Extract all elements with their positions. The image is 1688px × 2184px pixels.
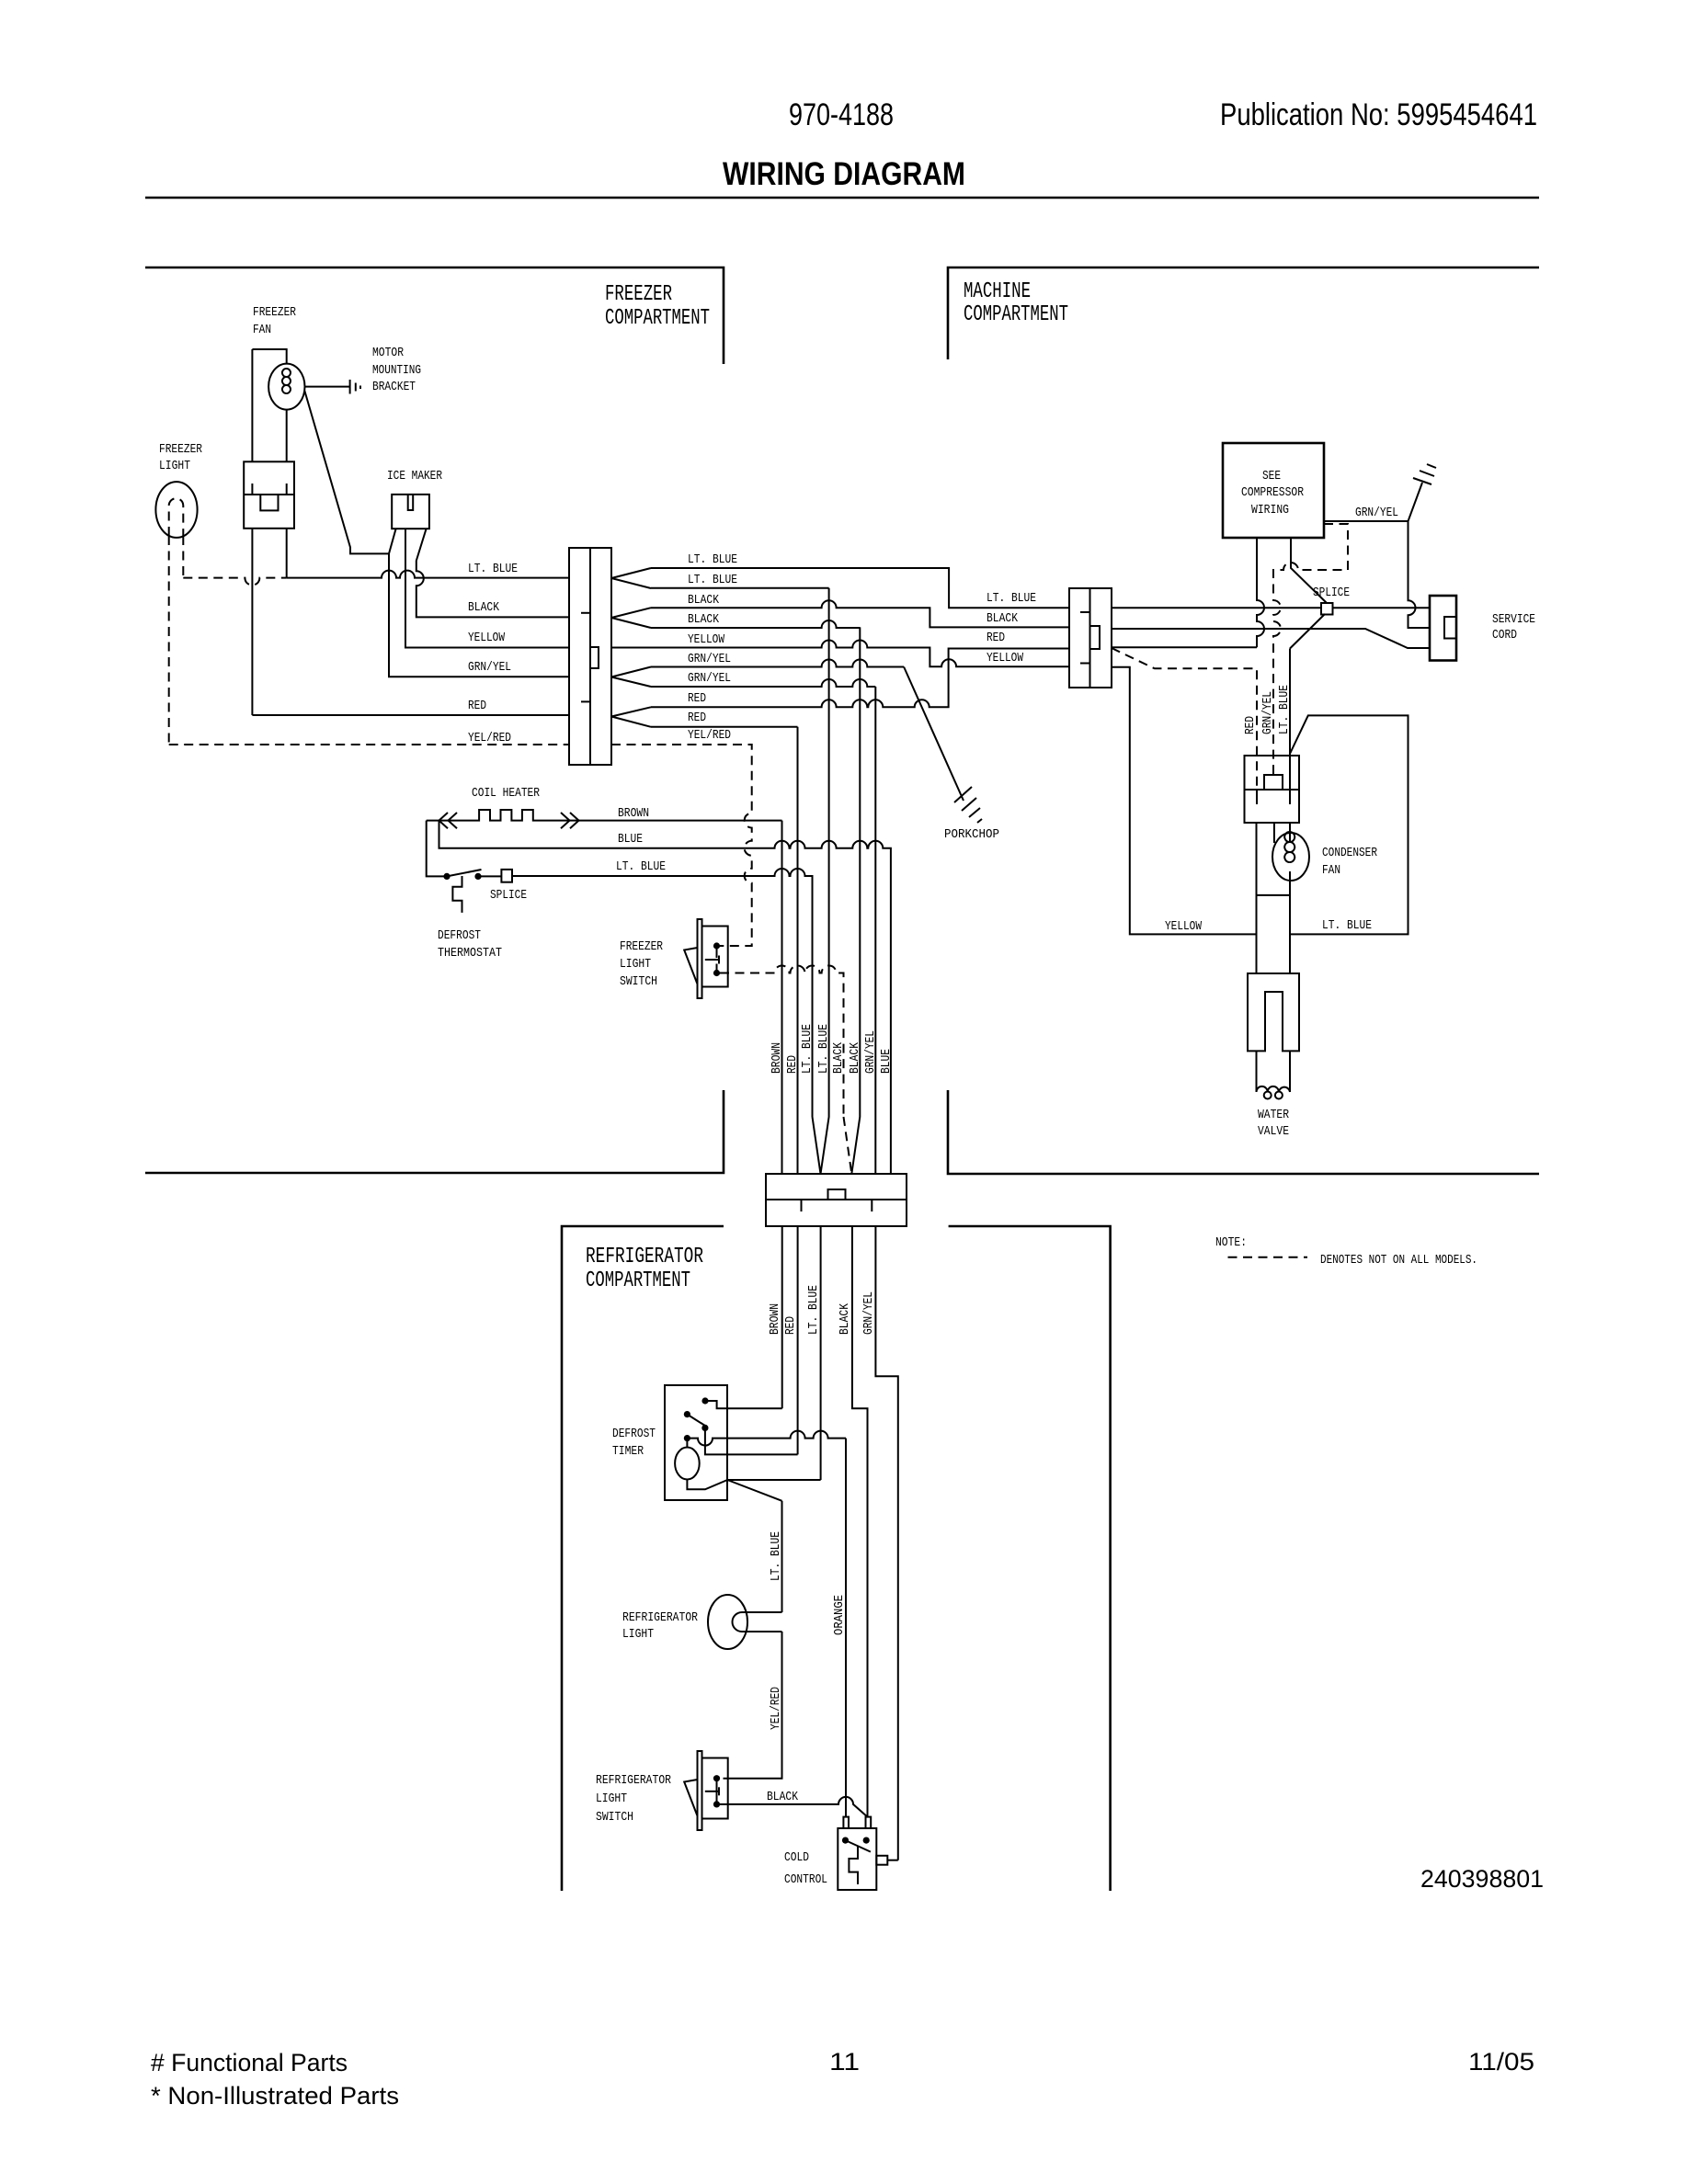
porkchop diagonal and ground — [904, 667, 982, 824]
footer date — [1468, 2048, 1534, 2076]
svg-text:WATER: WATER — [1258, 1108, 1289, 1122]
wire machine LT.BLUE to splice — [1112, 607, 1321, 609]
svg-text:COLD: COLD — [784, 1850, 809, 1865]
wire BROWN below connector — [781, 1226, 783, 1408]
label BLACK (machine left) — [987, 611, 1018, 626]
wire heater left down to thermostat — [427, 821, 447, 877]
wire splice to service cord — [1333, 607, 1431, 609]
refrigerator compartment box — [562, 1226, 1111, 1891]
label LT. BLUE (fridge) — [806, 1285, 821, 1335]
label SEE COMPRESSOR WIRING box — [1223, 443, 1324, 538]
label YELLOW (left) — [468, 631, 505, 645]
label YEL/RED (rotated) — [769, 1687, 783, 1730]
label NOTE — [1215, 1235, 1247, 1250]
freezer light dashed lead right — [183, 536, 286, 586]
svg-text:GRN/YEL: GRN/YEL — [861, 1291, 876, 1335]
label YEL/RED (right) — [688, 728, 731, 743]
svg-text:YEL/RED: YEL/RED — [468, 731, 511, 745]
svg-text:GRN/YEL: GRN/YEL — [863, 1030, 878, 1074]
label RED (rotated) — [1243, 716, 1258, 734]
label BROWN (bundle) — [770, 1042, 784, 1074]
label GRN/YEL (chev 2) — [688, 671, 731, 686]
condenser fan motor — [1272, 823, 1309, 973]
svg-text:MACHINE: MACHINE — [964, 279, 1031, 304]
label REFRIGERATOR COMPARTMENT — [586, 1245, 703, 1293]
water valve — [1248, 973, 1299, 1051]
wire BLACK 2nd drop at 935.3 — [651, 620, 860, 628]
dashed RED wire to compressor — [1112, 648, 1257, 790]
wire LT.BLUE timer to light — [781, 1501, 783, 1612]
label RED (fridge) — [783, 1316, 798, 1335]
label ORANGE — [832, 1595, 847, 1635]
label YELLOW (machine left) — [987, 651, 1023, 665]
footer page number — [829, 2048, 860, 2076]
label LT. BLUE (enclosure) — [1322, 918, 1372, 933]
svg-text:WIRING: WIRING — [1251, 503, 1289, 518]
label BLUE — [618, 832, 643, 847]
svg-text:COMPARTMENT: COMPARTMENT — [586, 1268, 690, 1293]
svg-text:REFRIGERATOR: REFRIGERATOR — [622, 1610, 698, 1625]
wire YELLOW jog to machine — [651, 641, 1069, 667]
wire YEL/RED light to switch — [724, 1632, 782, 1779]
label LT. BLUE (bundle 1) — [800, 1024, 815, 1074]
svg-text:LIGHT: LIGHT — [622, 1627, 654, 1642]
freezer light bulb — [155, 482, 197, 538]
svg-text:FAN: FAN — [1322, 863, 1340, 878]
svg-text:TIMER: TIMER — [612, 1444, 644, 1459]
svg-text:SPLICE: SPLICE — [490, 888, 527, 903]
label FREEZER COMPARTMENT — [605, 282, 710, 331]
wire thermostat to splice — [478, 875, 501, 877]
svg-text:VALVE: VALVE — [1258, 1124, 1289, 1139]
dashed YEL/RED wire to freezer connector — [169, 744, 569, 745]
dashed compressor GRN/YEL path — [1273, 524, 1348, 775]
note dashed sample and text — [1228, 1253, 1478, 1268]
defrost thermostat switch — [443, 870, 481, 913]
dashed YEL/RED wire to light switch — [611, 745, 752, 946]
svg-text:LT. BLUE: LT. BLUE — [800, 1024, 815, 1074]
label YEL/RED (left) — [468, 731, 511, 745]
wire BLACK switch to cold control — [720, 1797, 868, 1817]
chevron RED pair — [611, 707, 651, 727]
freezer fan connector — [244, 461, 294, 529]
label GRN/YEL (fridge) — [861, 1291, 876, 1335]
label DEFROST TIMER — [612, 1427, 656, 1459]
refrigerator light bulb — [708, 1595, 782, 1649]
svg-text:PORKCHOP: PORKCHOP — [944, 827, 999, 842]
svg-text:CORD: CORD — [1492, 628, 1517, 643]
freezer fan motor circle with coil — [252, 349, 304, 461]
water valve coil — [1257, 1051, 1291, 1098]
header publication number — [1220, 97, 1537, 132]
wire fan to RED (left pin down) — [251, 529, 253, 715]
svg-text:BLACK: BLACK — [688, 612, 719, 627]
svg-text:RED: RED — [1243, 716, 1258, 734]
svg-text:BLACK: BLACK — [688, 593, 719, 608]
svg-text:11/05: 11/05 — [1468, 2048, 1534, 2076]
machine compartment bottom border — [948, 1090, 1539, 1174]
label LT. BLUE (machine left) — [987, 591, 1036, 606]
freezer light switch — [684, 919, 728, 998]
wire machine RED to compressor — [1112, 646, 1257, 648]
label LT. BLUE (splice wire) — [616, 859, 666, 874]
svg-text:BROWN: BROWN — [768, 1303, 782, 1335]
label REFRIGERATOR LIGHT — [622, 1610, 698, 1642]
wire GRN/YEL 2nd drop at 952.3 — [651, 679, 875, 687]
svg-text:DEFROST: DEFROST — [438, 928, 481, 943]
wire bracket to ice maker pin1 — [304, 391, 389, 553]
svg-text:LIGHT: LIGHT — [620, 957, 651, 972]
wire compressor pin2 to splice diagonal — [1291, 538, 1327, 603]
label GRN/YEL (chev 1) — [688, 652, 731, 666]
title WIRING DIAGRAM — [723, 156, 965, 192]
svg-text:FREEZER: FREEZER — [159, 442, 202, 457]
label RED (chev 1) — [688, 691, 706, 706]
label MACHINE COMPARTMENT — [964, 279, 1068, 327]
label SERVICE CORD — [1492, 612, 1535, 643]
svg-text:BLACK: BLACK — [848, 1042, 862, 1074]
refrigerator light switch — [684, 1751, 728, 1830]
svg-text:LIGHT: LIGHT — [596, 1792, 627, 1806]
label SPLICE — [490, 888, 527, 903]
label LT. BLUE (chev 1) — [688, 552, 737, 567]
svg-text:BLACK: BLACK — [767, 1790, 798, 1804]
wire BLUE — [439, 821, 891, 1174]
svg-text:* Non-Illustrated Parts: * Non-Illustrated Parts — [151, 2082, 399, 2110]
machine compartment top border — [948, 267, 1539, 359]
wire overload left pin to water valve — [1257, 823, 1291, 973]
part number 240398801 — [1420, 1865, 1544, 1893]
svg-text:970-4188: 970-4188 — [789, 97, 894, 132]
svg-text:REFRIGERATOR: REFRIGERATOR — [596, 1773, 671, 1788]
service cord connector — [1430, 596, 1456, 661]
svg-text:YEL/RED: YEL/RED — [688, 728, 731, 743]
label GRN/YEL (rotated) — [1260, 691, 1275, 734]
svg-text:MOUNTING: MOUNTING — [372, 363, 421, 378]
label GRN/YEL (top right) — [1355, 506, 1398, 520]
wire YELLOW through connector — [611, 647, 651, 649]
svg-text:LT. BLUE: LT. BLUE — [468, 562, 518, 576]
svg-text:SEE: SEE — [1262, 469, 1281, 483]
svg-text:YELLOW: YELLOW — [1165, 919, 1202, 934]
svg-text:BLACK: BLACK — [838, 1303, 852, 1335]
svg-text:COMPARTMENT: COMPARTMENT — [964, 302, 1068, 327]
svg-text:COMPARTMENT: COMPARTMENT — [605, 306, 710, 331]
motor mounting bracket symbol — [305, 380, 361, 394]
ice maker pin 1 wire (GRN/YEL) — [389, 529, 569, 677]
svg-text:BRACKET: BRACKET — [372, 380, 416, 394]
svg-text:GRN/YEL: GRN/YEL — [1355, 506, 1398, 520]
wire RED to freezer connector — [252, 714, 569, 716]
svg-text:Publication No: 5995454641: Publication No: 5995454641 — [1220, 97, 1537, 132]
svg-text:DEFROST: DEFROST — [612, 1427, 656, 1441]
label BLACK (left) — [468, 600, 499, 615]
svg-text:DENOTES NOT ON ALL MODELS.: DENOTES NOT ON ALL MODELS. — [1320, 1253, 1477, 1268]
svg-text:YEL/RED: YEL/RED — [769, 1687, 783, 1730]
freezer light dashed lead left (YEL/RED) — [168, 536, 170, 745]
vertical RED bundle wire — [797, 727, 799, 1174]
svg-text:COIL HEATER: COIL HEATER — [472, 786, 540, 801]
wire fan right pin down to LT.BLUE corner — [286, 529, 288, 578]
label BLACK (fridge) — [838, 1303, 852, 1335]
svg-text:SWITCH: SWITCH — [620, 974, 657, 989]
label BLACK (chev 1) — [688, 593, 719, 608]
svg-text:LT. BLUE: LT. BLUE — [769, 1531, 783, 1581]
wire GRN/YEL 1st to porkchop — [651, 660, 904, 667]
wire machine BLACK to service cord — [1112, 629, 1430, 648]
svg-text:LT. BLUE: LT. BLUE — [987, 591, 1036, 606]
svg-text:11: 11 — [829, 2048, 860, 2076]
label RED (left) — [468, 699, 486, 713]
coil heater element — [427, 810, 782, 828]
svg-text:BROWN: BROWN — [618, 806, 649, 821]
wire LT.BLUE top to machine (drop at 1032) — [651, 568, 1069, 608]
wire BLACK below connector — [852, 1226, 868, 1817]
label RED (machine left) — [987, 631, 1005, 645]
svg-text:LT. BLUE: LT. BLUE — [1277, 685, 1292, 734]
label ICE MAKER — [387, 469, 442, 483]
svg-text:BLUE: BLUE — [618, 832, 643, 847]
svg-text:GRN/YEL: GRN/YEL — [688, 671, 731, 686]
chevron GRN/YEL pair — [611, 667, 651, 688]
dashed wire light switch to BLACK drop — [720, 966, 844, 1118]
wire GRN/YEL below connector — [875, 1226, 897, 1860]
vertical BLACK pair merge — [844, 627, 861, 1174]
svg-text:LT. BLUE: LT. BLUE — [616, 859, 666, 874]
wire GRN/YEL to chassis ground top right — [1324, 464, 1436, 521]
chevron LT.BLUE pair — [611, 568, 651, 588]
label LT. BLUE (bundle 2) — [816, 1024, 831, 1074]
svg-text:REFRIGERATOR: REFRIGERATOR — [586, 1245, 703, 1269]
ice maker pin 2 wire (YELLOW) — [405, 529, 569, 647]
svg-text:LT. BLUE: LT. BLUE — [688, 552, 737, 567]
svg-text:YELLOW: YELLOW — [468, 631, 505, 645]
label FREEZER FAN — [253, 305, 296, 337]
wire splice diagonal to LT.BLUE vertical — [1290, 614, 1325, 649]
svg-text:FREEZER: FREEZER — [605, 282, 672, 307]
label LT. BLUE (rotated) — [1277, 685, 1292, 734]
label WATER VALVE — [1258, 1108, 1289, 1139]
freezer compartment connector — [569, 548, 611, 765]
label BLACK (chev 2) — [688, 612, 719, 627]
svg-text:SERVICE: SERVICE — [1492, 612, 1535, 627]
svg-text:LT. BLUE: LT. BLUE — [688, 573, 737, 587]
svg-text:240398801: 240398801 — [1420, 1865, 1544, 1893]
svg-text:THERMOSTAT: THERMOSTAT — [438, 946, 502, 961]
svg-text:WIRING DIAGRAM: WIRING DIAGRAM — [723, 156, 965, 192]
svg-text:RED: RED — [987, 631, 1005, 645]
svg-text:GRN/YEL: GRN/YEL — [688, 652, 731, 666]
svg-text:RED: RED — [688, 711, 706, 725]
label COIL HEATER — [472, 786, 540, 801]
label PORKCHOP — [944, 827, 999, 842]
svg-text:RED: RED — [785, 1055, 800, 1074]
svg-text:COMPRESSOR: COMPRESSOR — [1241, 485, 1304, 500]
label YELLOW (enclosure) — [1165, 919, 1202, 934]
label GRN/YEL (left) — [468, 660, 511, 675]
label BROWN — [618, 806, 649, 821]
vertical BROWN bundle wire — [781, 821, 783, 1174]
label LT. BLUE (left) — [468, 562, 518, 576]
svg-text:GRN/YEL: GRN/YEL — [468, 660, 511, 675]
defrost timer — [665, 1385, 846, 1501]
wire RED 1st up to machine — [651, 649, 1069, 708]
svg-text:BROWN: BROWN — [770, 1042, 784, 1074]
svg-text:BLACK: BLACK — [468, 600, 499, 615]
label LT. BLUE (chev 2) — [688, 573, 737, 587]
svg-text:YELLOW: YELLOW — [688, 632, 724, 647]
label MOTOR MOUNTING BRACKET — [372, 346, 421, 394]
wire LT.BLUE from splice to drop 883.5 — [512, 869, 813, 1117]
vertical LT.BLUE pair merge — [813, 588, 829, 1174]
svg-text:LIGHT: LIGHT — [159, 459, 190, 473]
svg-text:FREEZER: FREEZER — [253, 305, 296, 320]
label BLACK (switch wire) — [767, 1790, 798, 1804]
svg-text:FREEZER: FREEZER — [620, 939, 663, 954]
footer functional parts — [151, 2049, 348, 2076]
label RED (bundle) — [785, 1055, 800, 1074]
chevron BLACK pair — [611, 608, 651, 628]
label DEFROST THERMOSTAT — [438, 928, 502, 961]
label RED (chev 2) — [688, 711, 706, 725]
svg-text:MOTOR: MOTOR — [372, 346, 404, 360]
wire GRN/YEL vertical to service cord — [1409, 521, 1431, 628]
svg-text:CONDENSER: CONDENSER — [1322, 846, 1377, 860]
svg-text:SWITCH: SWITCH — [596, 1810, 633, 1825]
label COLD CONTROL — [784, 1850, 827, 1887]
header model number 970-4188 — [789, 97, 894, 132]
svg-text:SPLICE: SPLICE — [1313, 586, 1350, 600]
svg-text:NOTE:: NOTE: — [1215, 1235, 1247, 1250]
svg-text:BLACK: BLACK — [987, 611, 1018, 626]
compressor overload connector — [1245, 756, 1300, 823]
wire RED 2nd drop at 867.5 — [651, 726, 798, 728]
label BLACK (bundle 1) — [831, 1042, 846, 1074]
label BROWN (fridge) — [768, 1303, 782, 1335]
label BLUE (bundle) — [879, 1049, 894, 1074]
wire LT.BLUE vertical and enclosure right — [1290, 649, 1409, 935]
svg-text:LT. BLUE: LT. BLUE — [816, 1024, 831, 1074]
svg-text:ICE MAKER: ICE MAKER — [387, 469, 442, 483]
svg-text:RED: RED — [688, 691, 706, 706]
title underline — [145, 197, 1539, 199]
svg-text:CONTROL: CONTROL — [784, 1872, 827, 1887]
label CONDENSER FAN — [1322, 846, 1377, 878]
label LT. BLUE (timer-light) — [769, 1531, 783, 1581]
wire LT.BLUE below connector — [820, 1226, 822, 1480]
ice maker pin 3 wire (BLACK) — [416, 529, 569, 617]
wire machine YELLOW down and around — [1112, 667, 1257, 935]
ice maker box — [392, 495, 429, 529]
label SPLICE — [1313, 586, 1350, 600]
svg-text:FAN: FAN — [253, 323, 271, 337]
splice (service cord) — [1321, 603, 1333, 615]
wire LT.BLUE 2nd drop at 901.6 — [651, 587, 829, 589]
label BLACK (bundle 2) — [848, 1042, 862, 1074]
svg-text:LT. BLUE: LT. BLUE — [806, 1285, 821, 1335]
svg-text:GRN/YEL: GRN/YEL — [1260, 691, 1275, 734]
label FREEZER LIGHT — [159, 442, 202, 473]
wire RED below connector — [797, 1226, 799, 1454]
freezer compartment bottom border — [145, 1090, 724, 1173]
label REFRIGERATOR LIGHT SWITCH — [596, 1773, 671, 1825]
machine compartment connector — [1069, 588, 1112, 688]
splice (coil heater) — [501, 870, 512, 882]
wire BLACK 1st with jog to machine — [651, 600, 1069, 627]
svg-text:ORANGE: ORANGE — [832, 1595, 847, 1635]
svg-text:YELLOW: YELLOW — [987, 651, 1023, 665]
svg-text:BLUE: BLUE — [879, 1049, 894, 1074]
label FREEZER LIGHT SWITCH — [620, 939, 663, 989]
vertical GRN/YEL bundle wire — [874, 687, 876, 1174]
svg-text:# Functional Parts: # Functional Parts — [151, 2049, 348, 2076]
footer non-illustrated parts — [151, 2082, 399, 2110]
wire LT. BLUE to freezer connector — [287, 571, 569, 578]
refrigerator section connector — [766, 1174, 907, 1226]
wire ORANGE vertical — [845, 1439, 847, 1817]
wire compressor pin1 down to RED — [1257, 538, 1264, 647]
svg-text:LT. BLUE: LT. BLUE — [1322, 918, 1372, 933]
cold control — [838, 1817, 898, 1890]
label YELLOW (chev) — [688, 632, 724, 647]
label GRN/YEL (bundle) — [863, 1030, 878, 1074]
svg-text:RED: RED — [783, 1316, 798, 1335]
freezer compartment top border — [145, 267, 724, 364]
svg-text:BLACK: BLACK — [831, 1042, 846, 1074]
svg-text:RED: RED — [468, 699, 486, 713]
